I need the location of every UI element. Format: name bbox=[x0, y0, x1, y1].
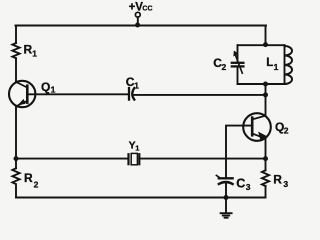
transistor Q2 bbox=[243, 113, 271, 141]
node collector junction bbox=[263, 92, 268, 97]
node ground junction bbox=[224, 195, 229, 200]
svg-text:R: R bbox=[24, 42, 33, 56]
wire R3 bottom to rail bbox=[265, 186, 267, 198]
resistor R2 bbox=[12, 168, 19, 184]
label Q2 bbox=[275, 120, 289, 135]
wire tank bottom side bbox=[238, 83, 285, 85]
svg-text:CC: CC bbox=[142, 5, 152, 12]
wire R3 top bbox=[265, 159, 267, 171]
svg-text:+V: +V bbox=[129, 1, 144, 13]
svg-text:R: R bbox=[273, 172, 282, 186]
node left emitter junction bbox=[14, 156, 19, 161]
resistor R3 bbox=[262, 170, 269, 186]
wire tank left branch upper bbox=[237, 45, 239, 62]
label R2 bbox=[24, 171, 39, 189]
node vcc junction bbox=[135, 23, 140, 28]
wire tank left branch lower bbox=[237, 66, 239, 84]
svg-text:1: 1 bbox=[135, 143, 139, 152]
svg-text:1: 1 bbox=[134, 81, 139, 91]
svg-text:3: 3 bbox=[246, 182, 251, 192]
label R3 bbox=[273, 172, 288, 189]
wire R1 to Q1 collector bbox=[15, 58, 17, 82]
capacitor C3 bbox=[216, 175, 232, 184]
wire top rail bbox=[16, 25, 267, 27]
wire C3 to bottom rail bbox=[225, 183, 227, 197]
svg-text:2: 2 bbox=[284, 125, 289, 135]
inductor L1 bbox=[285, 45, 293, 84]
wire Y1 row right bbox=[139, 158, 265, 160]
label C2 bbox=[213, 56, 226, 72]
svg-text:R: R bbox=[24, 171, 33, 185]
svg-text:1: 1 bbox=[51, 85, 56, 95]
terminal +Vcc bbox=[135, 12, 140, 24]
wire Q2 base L-shape bbox=[226, 126, 252, 178]
node right emitter junction bbox=[263, 156, 268, 161]
svg-text:3: 3 bbox=[283, 179, 288, 189]
wire left vertical (rail to R1) bbox=[15, 26, 17, 44]
svg-text:L: L bbox=[266, 57, 273, 69]
capacitor C1 bbox=[129, 88, 134, 100]
wire Q1 emitter down to Y1 row bbox=[15, 106, 17, 158]
ground bbox=[221, 198, 232, 218]
label R1 bbox=[24, 42, 38, 58]
node tank top junction bbox=[263, 42, 268, 47]
wire rail feed down to tank top bbox=[265, 26, 267, 45]
transistor Q1 bbox=[9, 81, 35, 107]
label Q1 bbox=[41, 80, 56, 95]
svg-text:C: C bbox=[236, 176, 245, 190]
wire Q2 emitter down to node bbox=[265, 139, 267, 159]
wire R2 bottom to rail bbox=[15, 186, 17, 198]
wire tank bottom to Q2 collector bbox=[265, 84, 267, 116]
label L1 bbox=[266, 57, 278, 72]
svg-text:2: 2 bbox=[34, 179, 39, 189]
wire Y1 row left bbox=[16, 158, 128, 160]
wire tank top side bbox=[238, 44, 285, 46]
svg-text:1: 1 bbox=[32, 49, 37, 59]
node tank bottom junction bbox=[263, 82, 268, 87]
svg-text:1: 1 bbox=[274, 62, 279, 72]
wire C1 to collector node bbox=[132, 94, 265, 96]
wire R2 top bbox=[15, 159, 17, 169]
svg-text:Q: Q bbox=[41, 80, 50, 94]
label Y1 bbox=[129, 139, 140, 152]
label +Vcc bbox=[129, 1, 153, 13]
capacitor C2 bbox=[232, 51, 244, 73]
wire bottom rail bbox=[16, 197, 266, 199]
wire Q1 base row to C1 bbox=[27, 93, 128, 95]
label C1 bbox=[126, 75, 140, 91]
svg-text:2: 2 bbox=[222, 62, 227, 72]
crystal Y1 bbox=[129, 153, 140, 164]
label C3 bbox=[236, 176, 251, 192]
resistor R1 bbox=[12, 43, 19, 58]
